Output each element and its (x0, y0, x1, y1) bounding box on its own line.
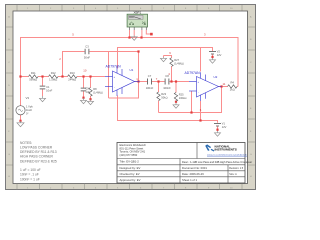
svg-text:Designed by: EV: Designed by: EV (120, 166, 141, 170)
resistor R8 vertical (89, 87, 103, 96)
svg-text:R4: R4 (230, 80, 234, 84)
svg-text:100nF: 100nF (163, 86, 171, 90)
svg-text:Revision: 1.5: Revision: 1.5 (229, 167, 243, 170)
wire output feedback rail (159, 87, 222, 113)
svg-text:C7: C7 (148, 74, 152, 78)
ground under V3 (17, 121, 24, 127)
svg-text:C1: C1 (46, 85, 50, 89)
svg-text:12V: 12V (217, 53, 222, 57)
svg-text:100kΩ: 100kΩ (179, 96, 187, 100)
svg-text:R8: R8 (93, 87, 97, 91)
ground under C1 (40, 96, 46, 102)
wire inverting input drop U1 (108, 52, 110, 99)
wire gnd stub drop (163, 56, 165, 58)
svg-text:C8: C8 (165, 74, 169, 78)
svg-text:1 Vpk: 1 Vpk (26, 104, 33, 108)
svg-text:3: 3 (204, 32, 206, 36)
wire vcc drop op-amp U2 (200, 48, 202, 72)
NI logo (205, 144, 248, 156)
wire C5 drop (83, 77, 85, 88)
wire R8 drop (90, 77, 92, 88)
wire stage2 segment c (169, 81, 189, 83)
op-amp U1 AD797AN (105, 65, 140, 96)
wire negative rail (118, 96, 218, 123)
svg-text:V2: V2 (217, 50, 221, 54)
ground under R8 (88, 100, 94, 105)
wire U1 feedback U loop (109, 52, 139, 99)
svg-text:5: 5 (72, 32, 74, 36)
svg-text:LOW PASS CORNER: LOW PASS CORNER (20, 145, 53, 149)
svg-text:(1/4MΩ): (1/4MΩ) (174, 61, 184, 65)
ground under V1 (215, 131, 221, 136)
svg-text:1 uF = 100 uF: 1 uF = 100 uF (20, 168, 41, 172)
wire input top rail net 5 (21, 38, 239, 106)
wire gnd stub R27 (164, 56, 172, 58)
svg-text:R13: R13 (70, 71, 75, 75)
ground under R25 (173, 103, 179, 108)
svg-text:11: 11 (223, 82, 226, 86)
svg-text:Toronto, ON M5V 2H1: Toronto, ON M5V 2H1 (120, 150, 146, 154)
wire V1 to ground (217, 127, 219, 132)
wire R25 to ground (175, 101, 177, 103)
svg-text:R27: R27 (174, 58, 179, 62)
svg-text:Title: EV-QB1-2: Title: EV-QB1-2 (120, 160, 140, 164)
svg-text:V1: V1 (222, 122, 226, 126)
bode plotter XBP1 (127, 11, 147, 31)
resistor R12 (49, 71, 59, 82)
op-amp U2 AD797AN (185, 71, 222, 101)
capacitor C1 (40, 85, 53, 93)
wire R4 right (237, 86, 238, 88)
resistor R4 (228, 80, 238, 91)
svg-text:INSTRUMENTS: INSTRUMENTS (215, 148, 237, 152)
svg-text:2kΩ: 2kΩ (230, 88, 235, 92)
wire U2 inverting feedback drop (191, 91, 193, 113)
wire ladder segment d (77, 76, 105, 78)
ground under C5 (81, 98, 87, 104)
svg-text:G: G (8, 154, 10, 156)
svg-text:www.ni.com/electronicsworkbenc: www.ni.com/electronicsworkbench (207, 153, 248, 156)
svg-text:1: 1 (136, 77, 138, 81)
ground under V2 (210, 58, 216, 63)
svg-text:V3: V3 (26, 96, 30, 100)
svg-text:244kΩ: 244kΩ (68, 78, 76, 82)
svg-text:HIGH PASS CORNER: HIGH PASS CORNER (20, 155, 54, 159)
resistor R13 (68, 71, 78, 82)
resistor R11 (29, 71, 39, 82)
sheet border frame (6, 5, 256, 190)
svg-text:-: - (198, 90, 199, 94)
svg-text:Electronics Workbench: Electronics Workbench (120, 143, 147, 147)
svg-text:100nF = 1 uF: 100nF = 1 uF (20, 177, 40, 181)
wire C5 to ground (83, 91, 85, 98)
resistor R23 vertical (157, 92, 168, 101)
svg-text:Sheet 1 of 1: Sheet 1 of 1 (182, 178, 198, 182)
svg-text:801-111 Peter Street: 801-111 Peter Street (120, 146, 144, 150)
svg-text:50nF: 50nF (84, 55, 90, 59)
svg-text:Date: 2006-06-26: Date: 2006-06-26 (182, 172, 204, 176)
svg-text:R12: R12 (51, 71, 56, 75)
svg-text:DEFINED BY R23 & R25: DEFINED BY R23 & R25 (20, 159, 57, 163)
ground under XBP1 pin2 (131, 36, 137, 41)
wire U2 output (219, 86, 228, 88)
svg-text:6: 6 (200, 108, 202, 112)
ground on bias stub (161, 57, 167, 62)
svg-text:100nF: 100nF (146, 86, 154, 90)
wire V2 to ground (212, 55, 214, 59)
ac source V3 (16, 96, 33, 116)
svg-text:Size: A: Size: A (229, 173, 237, 176)
svg-text:U1: U1 (130, 68, 134, 72)
wire xbp pin3 (141, 30, 143, 38)
svg-text:AD797AN: AD797AN (106, 65, 122, 69)
svg-text:Desc.: 1-1dB Low Pass and 0dB: Desc.: 1-1dB Low Pass and 0dB High Pass … (182, 160, 252, 164)
svg-text:10nF: 10nF (46, 89, 52, 93)
svg-text:2: 2 (59, 57, 61, 61)
svg-text:(1/4MΩ): (1/4MΩ) (93, 90, 103, 94)
capacitor C7 (146, 74, 154, 90)
svg-text:U2: U2 (214, 75, 218, 79)
svg-text:DEFINED BY R11 & R13: DEFINED BY R11 & R13 (20, 150, 57, 154)
svg-text:12V: 12V (222, 125, 227, 129)
wire stage2 segment b (152, 81, 165, 83)
dc source V2 (209, 50, 222, 58)
wire R23 to rail (158, 101, 160, 113)
wire V3 stub (20, 115, 22, 121)
wire xbp pin4 stub (146, 30, 150, 34)
svg-text:(416) 977-5550: (416) 977-5550 (120, 153, 138, 157)
svg-text:Approved by: EV: Approved by: EV (120, 178, 141, 182)
svg-text:AD797AN: AD797AN (185, 71, 201, 75)
capacitor C3 feedback (84, 45, 90, 60)
svg-text:10nF = .1 uF: 10nF = .1 uF (20, 173, 39, 177)
wire feedback line right of C3 (90, 51, 139, 53)
capacitor C8 (163, 74, 171, 90)
svg-text:C3: C3 (85, 45, 89, 49)
svg-text:-: - (114, 85, 115, 89)
svg-text:NOTES:: NOTES: (20, 141, 32, 145)
dc source V1 (214, 122, 227, 130)
capacitor C5 (81, 87, 91, 94)
wire vcc rail (118, 48, 213, 69)
svg-text:50kΩ: 50kΩ (161, 95, 167, 99)
title block (117, 143, 252, 184)
wire R23 drop (158, 82, 160, 93)
svg-text:1kHz: 1kHz (26, 108, 33, 112)
wire R25 drop (175, 82, 177, 93)
wire C1 drop (42, 77, 44, 86)
wire ladder segment c (58, 76, 68, 78)
svg-text:7: 7 (156, 77, 158, 81)
wire R8 to ground (90, 96, 92, 100)
wire stage2 segment a (135, 81, 148, 83)
wire R27 to input node (171, 66, 173, 81)
resistor R27 vertical (170, 58, 184, 67)
wire feedback cap line net 2 (63, 52, 85, 77)
wire xbp pin2 to ground (133, 30, 135, 36)
svg-text:Checked by: EV: Checked by: EV (120, 172, 140, 176)
svg-text:599kΩ: 599kΩ (29, 78, 37, 82)
svg-text:9: 9 (169, 51, 171, 55)
notes text (20, 141, 57, 182)
wire xbp pin1 (129, 30, 131, 38)
wire ladder segment b (38, 76, 49, 78)
net number labels (59, 32, 226, 111)
svg-text:10: 10 (83, 68, 87, 72)
svg-text:Document No: 0001: Document No: 0001 (182, 166, 207, 170)
wire ladder segment a (21, 76, 29, 78)
svg-text:0°: 0° (26, 112, 28, 116)
wire U2 negative supply drop (200, 101, 202, 121)
svg-text:G: G (250, 154, 252, 156)
wire C1 to ground (42, 89, 44, 96)
svg-text:1.5MΩ: 1.5MΩ (49, 78, 57, 82)
svg-text:R23: R23 (161, 92, 166, 96)
svg-text:R11: R11 (31, 71, 36, 75)
svg-text:R25: R25 (179, 92, 184, 96)
resistor R25 vertical (174, 92, 186, 101)
